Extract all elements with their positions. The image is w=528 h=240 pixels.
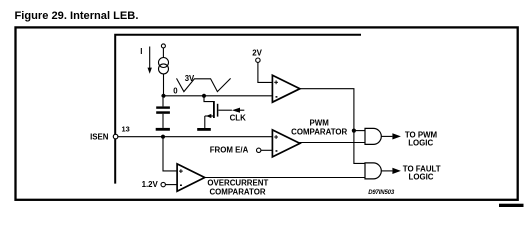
arrow to FAULT logic (392, 168, 401, 174)
wire G1 output (381, 135, 392, 137)
AND gate G1 (PWM) (365, 128, 381, 144)
minus input mark U2 (276, 150, 278, 152)
wire ramp rail (164, 95, 273, 97)
1.2V terminal circle (161, 182, 165, 186)
transistor Q1 (CLK discharge MOSFET) (204, 96, 232, 128)
svg-text:CLK: CLK (230, 113, 247, 122)
wire ISEN rail (118, 136, 273, 138)
wire U3 output to bottom AND gate (205, 177, 365, 179)
FROM E/A terminal circle (257, 148, 261, 152)
plus input mark U2 (274, 135, 278, 139)
node MOSFET drain junction (202, 94, 206, 98)
node ISEN junction (161, 135, 165, 139)
label PWM COMPARATOR (291, 119, 347, 137)
footer page mark (499, 204, 524, 207)
svg-text:2V: 2V (252, 49, 262, 58)
minus input mark U3 (180, 185, 182, 187)
pin 13 terminal circle (113, 134, 118, 139)
IC boundary box (partial) (115, 35, 361, 184)
plus input mark U3 (179, 169, 183, 173)
svg-text:3V: 3V (185, 74, 195, 83)
ground (MOSFET source) (197, 128, 211, 131)
svg-text:LOGIC: LOGIC (408, 138, 433, 147)
wire 2V to LEB comparator (258, 62, 273, 82)
svg-text:COMPARATOR: COMPARATOR (209, 187, 265, 196)
label OVERCURRENT COMPARATOR (207, 179, 268, 197)
svg-text:D97IN503: D97IN503 (368, 190, 395, 196)
wire G2 output (381, 170, 392, 172)
current source I terminal circle (161, 44, 165, 48)
wire branch to top AND gate (354, 130, 365, 132)
arrow to PWM logic (392, 133, 401, 139)
svg-text:ISEN: ISEN (90, 132, 109, 141)
outer figure frame (16, 27, 518, 199)
wire U1 output to AND column (300, 89, 365, 164)
ramp waveform annotation (177, 78, 231, 91)
wire U2 output to top AND gate (300, 142, 365, 144)
capacitor C (LEB ramp) (156, 98, 170, 128)
svg-text:1.2V: 1.2V (142, 180, 159, 189)
svg-text:LOGIC: LOGIC (409, 172, 434, 181)
label TO PWM LOGIC (405, 130, 438, 147)
wire 1.2V to U3 (165, 184, 177, 186)
svg-text:PWM: PWM (310, 119, 330, 128)
svg-text:FROM E/A: FROM E/A (210, 146, 249, 155)
svg-text:13: 13 (122, 125, 130, 134)
svg-text:OVERCURRENT: OVERCURRENT (207, 179, 268, 188)
CLK input arrow (232, 108, 244, 113)
minus input mark U1 (276, 96, 278, 98)
label TO FAULT LOGIC (403, 164, 441, 181)
ground (capacitor) (156, 128, 170, 131)
svg-text:COMPARATOR: COMPARATOR (291, 127, 347, 136)
op-amp U3 overcurrent comparator (177, 164, 205, 191)
wire ISEN branch to overcurrent comparator (163, 137, 177, 171)
svg-text:I: I (140, 47, 142, 56)
wire terminal to current source (162, 48, 164, 58)
op-amp U2 PWM comparator (272, 130, 300, 157)
2V terminal circle (256, 58, 260, 62)
node LEB output branch (352, 129, 356, 133)
AND gate G2 (FAULT) (365, 163, 381, 179)
wire FROM E/A to U2 (261, 149, 273, 151)
svg-text:Figure 29. Internal LEB.: Figure 29. Internal LEB. (15, 10, 139, 22)
op-amp U1 LEB comparator (272, 75, 300, 102)
node ramp rail junction (161, 94, 165, 98)
wire current source to ramp node (163, 74, 165, 96)
svg-text:0: 0 (173, 87, 178, 96)
plus input mark U1 (274, 80, 278, 84)
current direction arrow (148, 47, 152, 74)
current source I (two circles) (159, 58, 169, 74)
